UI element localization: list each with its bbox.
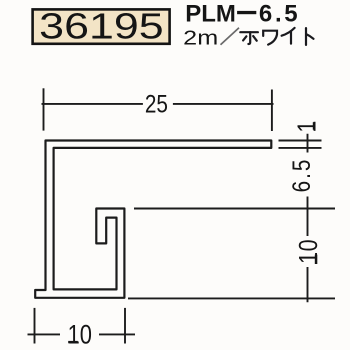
svg-text:10: 10 [294,239,323,264]
katakana I [282,28,295,44]
dimension 10 bottom line [28,333,136,335]
bottom extension line right [128,297,335,299]
svg-text:2m: 2m [183,27,218,49]
profile cross-section outline [35,141,271,298]
dimension 10 bottom extension line left [34,308,36,344]
dimension 25 extension line right [271,90,273,132]
fullwidth slash [221,28,240,45]
svg-text:6.5: 6.5 [287,158,315,193]
svg-text:25: 25 [145,90,168,118]
dimension 25 extension line left [43,88,45,130]
dimension 1 extension lines [279,141,322,148]
svg-text:1: 1 [293,121,321,133]
vertical dimension line right [307,134,309,302]
hook top extension line [134,208,335,210]
product code box [33,9,170,43]
dimension 10 bottom extension line right [124,308,126,344]
svg-text:36195: 36195 [39,6,164,47]
katakana HO [240,32,258,44]
svg-text:PLM: PLM [185,1,236,28]
svg-text:6.5: 6.5 [259,1,300,28]
katakana WA [263,31,277,45]
katakana TO [306,28,314,45]
svg-text:10: 10 [68,320,92,350]
dimension 25 line [42,103,274,105]
